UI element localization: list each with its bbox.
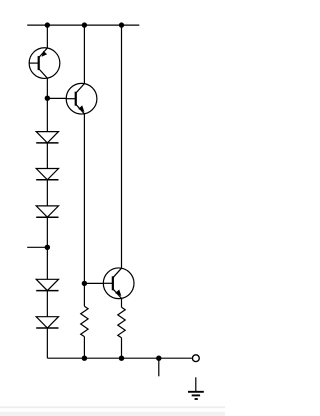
junction: bottom rail / stub [156,356,161,361]
junction: bottom rail / R2 [119,356,124,361]
top power rail wire [27,24,139,26]
wire: Q2 emitter down to resistor R1 [83,114,85,306]
resistor R1 [81,306,88,336]
wire: top rail down to Q2 collector [83,25,85,84]
wire: D4 to D5 [46,291,48,317]
wire: D5 down and corner to bottom rail [46,328,48,358]
diode D3 [36,206,58,217]
wire: left wire to Q2 base [47,97,66,99]
diode D4 [36,279,58,290]
wire: top rail down to Q1 emitter [46,25,48,48]
wire: middle wire to Q3 base [84,282,103,284]
wire: D1 to D2 [46,143,48,169]
wire: stub below bottom rail [158,358,160,376]
wire: Q3 emitter down to resistor R2 [121,298,123,307]
junction: Q3 base tap on middle wire [82,281,87,286]
wire: R1 to bottom rail [83,337,85,359]
wire: Q1 collector down to diode D1 [46,78,48,131]
transistor Q2 (NPN) [66,83,97,114]
junction: top rail to Q1 wire [45,22,50,27]
junction: top rail to Q3 collector wire [119,22,124,27]
terminal (open circle) [192,355,199,362]
diode D5 [36,317,58,328]
wire: left stub from tap node [27,246,47,248]
wire: D3 to D4 [46,217,48,279]
diode D2 [36,169,58,180]
wire: D2 to D3 [46,180,48,206]
junction: bottom rail / R1 [82,356,87,361]
junction: top rail to Q2 collector wire [82,22,87,27]
transistor Q1 (PNP) [29,48,60,79]
wire: top rail down to Q3 collector [121,25,123,268]
bottom rail wire [47,357,192,359]
ground symbol [188,377,204,399]
resistor R2 [118,307,125,337]
transistor Q3 (NPN) [103,268,134,299]
wire: R2 to bottom rail [121,338,123,359]
junction: Q2 base tap on left wire [45,96,50,101]
diode D1 [36,132,58,143]
junction: left tap node [45,245,50,250]
